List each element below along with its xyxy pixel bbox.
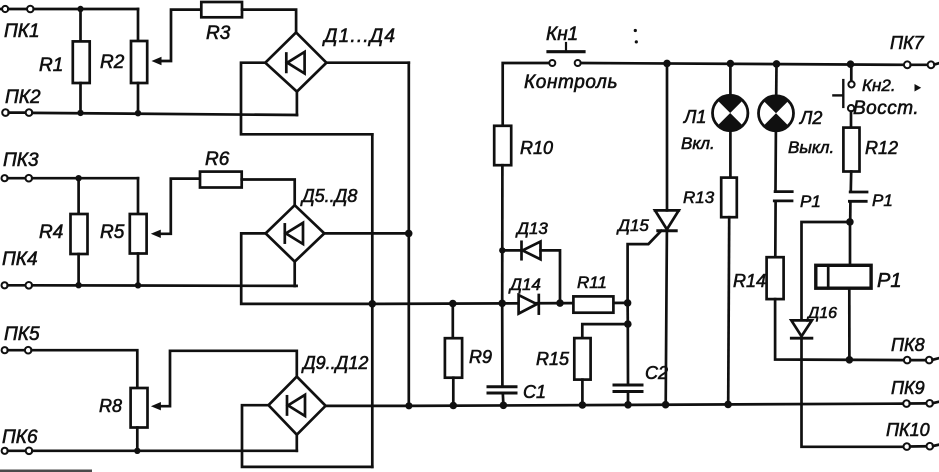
terminal PK5: [2, 347, 32, 354]
relay contact P1a: [774, 192, 792, 201]
arrow mark: [915, 84, 922, 92]
wire to D16: [802, 222, 851, 320]
resistor R5 (rheostat): [130, 214, 147, 254]
svg-text:R14: R14: [733, 271, 766, 291]
node junction R15 branch: [624, 320, 632, 328]
wire R12 bottom to contact P1b: [849, 172, 852, 191]
resistor R11: [573, 296, 613, 312]
svg-text:Д5..Д8: Д5..Д8: [300, 186, 357, 206]
node junction bridge2 right on bus: [405, 230, 413, 238]
svg-text:Д16: Д16: [806, 305, 837, 322]
wiper arrow R8: [151, 402, 161, 410]
resistor R12: [843, 128, 859, 172]
terminal PK6: [2, 448, 33, 455]
wire R8 bottom stub: [136, 428, 139, 451]
node junction D15 cathode on bus: [662, 401, 670, 409]
wire D13 to node: [541, 250, 561, 303]
resistor R4: [71, 214, 88, 254]
node junction C2 bottom: [624, 401, 632, 409]
wire R5 bottom stub: [137, 254, 140, 286]
node junction R1 bottom: [77, 110, 83, 116]
wire minus column vertical: [371, 134, 374, 467]
wire bridge2 left to node line: [241, 233, 372, 304]
svg-text:R12: R12: [865, 138, 898, 158]
node junction Kn2 branch: [847, 60, 855, 68]
colon mark: [634, 29, 638, 44]
wire C1 bottom stub: [501, 393, 504, 405]
terminal PK3: [2, 175, 33, 182]
svg-text:Р1: Р1: [872, 191, 893, 210]
wire top rail right: [581, 63, 904, 65]
wire R5 wiper to R6: [159, 179, 200, 234]
svg-text:R2: R2: [100, 52, 125, 73]
wiper arrow R5: [151, 230, 161, 238]
wire C1 vertical: [501, 303, 504, 386]
svg-text:Л2: Л2: [799, 108, 822, 128]
wire thyristor gate: [628, 231, 662, 303]
svg-text:Д14: Д14: [508, 275, 541, 294]
svg-text:ПК4: ПК4: [2, 249, 38, 270]
node junction R9 top: [449, 300, 457, 308]
resistor R15: [574, 338, 590, 380]
svg-text:C1: C1: [523, 382, 546, 402]
svg-text:R1: R1: [39, 55, 63, 76]
svg-text:ПК6: ПК6: [2, 427, 38, 448]
wire L1 to R13: [729, 131, 732, 178]
wire R14 bottom to PK8 rail: [775, 299, 904, 360]
svg-text:R8: R8: [99, 396, 122, 416]
resistor R8 (rheostat): [131, 388, 148, 428]
wire Kn2 stub: [850, 64, 853, 81]
wire L1 top stub: [729, 64, 732, 96]
node junction plus vertical on bottom bus: [405, 402, 412, 409]
wire PK2 rail to bridge1 bottom: [32, 113, 297, 115]
wire bridge3 bottom stub: [295, 435, 298, 451]
wire plus bus vertical: [407, 63, 410, 406]
wire to R15 top: [582, 324, 628, 338]
svg-text:ПК1: ПК1: [4, 21, 40, 42]
wire bridge1 left to minus column: [241, 63, 372, 135]
wire bridge1 right to plus bus: [326, 61, 408, 64]
node junction L2 branch: [773, 60, 781, 68]
svg-text:R13: R13: [683, 188, 715, 207]
node junction R8 bottom: [134, 448, 140, 454]
wire L2 top stub: [775, 64, 778, 96]
svg-text:R9: R9: [469, 347, 492, 367]
node junction R5 bottom: [135, 282, 141, 288]
wire R5 top stub: [137, 178, 140, 214]
wire R4 bottom stub: [77, 254, 80, 285]
node junction R9 bottom: [450, 402, 458, 410]
svg-text:Восст.: Восст.: [853, 98, 919, 119]
capacitor C1: [488, 387, 516, 393]
wire R15 C2 node vertical: [626, 303, 629, 324]
svg-text:Вкл.: Вкл.: [681, 134, 715, 153]
resistor R1: [73, 41, 90, 83]
wire top rail section3 to R8: [32, 350, 138, 388]
svg-text:ПК3: ПК3: [3, 150, 39, 171]
resistor R9: [445, 338, 462, 378]
wire R1 bottom stub: [79, 83, 82, 113]
svg-text:R4: R4: [39, 222, 63, 243]
svg-text:Кн1: Кн1: [546, 24, 578, 45]
svg-text:ПК5: ПК5: [4, 324, 40, 345]
diode D13: [522, 242, 541, 260]
node junction R2 bottom: [135, 110, 141, 116]
wire R2 wiper to R3: [160, 10, 201, 61]
svg-text:Д15: Д15: [616, 216, 649, 235]
wire R2 top stub: [137, 9, 140, 41]
relay contact P1b: [849, 192, 867, 201]
wire relay coil top stub: [849, 222, 852, 265]
node junction L1 branch: [727, 60, 735, 68]
wire D13 branch left: [502, 249, 520, 252]
wire node line: [372, 303, 627, 304]
diode D16: [791, 320, 812, 338]
wire bridge1 bottom stub: [296, 92, 299, 115]
wire R8 wiper to bridge3 top: [159, 351, 297, 406]
svg-text:R3: R3: [206, 23, 231, 44]
svg-text:R11: R11: [577, 273, 607, 292]
node junction D13 bottom: [556, 299, 564, 307]
svg-text:Выкл.: Выкл.: [788, 138, 834, 157]
terminal PK9: [903, 400, 938, 407]
wiper arrow R2: [152, 57, 162, 65]
wire D16 cathode to PK10 rail: [802, 338, 904, 447]
wire top rail section1: [34, 8, 138, 11]
svg-text:ПК8: ПК8: [891, 335, 925, 355]
terminal PK10: [904, 443, 939, 450]
terminal PK8: [904, 357, 938, 364]
wire contact P1b down: [849, 203, 852, 222]
lamp L1: [713, 95, 748, 130]
wire C2 vertical: [626, 324, 629, 385]
wire Kn2 to R12: [850, 112, 853, 128]
resistor R10: [494, 126, 511, 165]
wire PK4 rail to bridge2 bottom: [32, 284, 296, 287]
wire R15 bottom stub: [581, 380, 584, 406]
svg-text:Д13: Д13: [515, 219, 548, 238]
wire bridge3 right to bus: [326, 405, 409, 408]
node junction R10 C1 on node line: [498, 300, 506, 308]
node junction minus column and node line: [369, 300, 377, 308]
lamp L2: [759, 96, 794, 131]
svg-text:ПК9: ПК9: [891, 378, 925, 398]
node junction D16 branch: [846, 218, 854, 226]
wire R9 bottom stub: [452, 378, 455, 406]
svg-text:R15: R15: [536, 349, 570, 369]
wire D15 anode from rail: [666, 63, 669, 210]
resistor R3: [201, 2, 242, 17]
wire R6 to bridge2 top: [242, 180, 295, 206]
rectifier bridge D1..D4: [265, 32, 326, 91]
svg-text:Кн2.: Кн2.: [862, 76, 896, 95]
resistor R2 (rheostat): [131, 41, 147, 83]
capacitor C2: [614, 385, 642, 392]
wire bridge3 left to minus column bottom: [242, 405, 372, 467]
wire top rail section2: [32, 177, 138, 180]
wire bottom bus: [409, 404, 907, 406]
terminal PK1: [0, 6, 34, 13]
node junction D15 branch: [663, 60, 671, 68]
node junction C1 bottom: [500, 402, 508, 410]
wire R3 to bridge1 top: [242, 10, 296, 33]
svg-text:R5: R5: [100, 222, 125, 243]
svg-text:Л1: Л1: [683, 107, 706, 127]
wire bridge2 bottom stub: [293, 262, 296, 286]
node junction D13 tap: [499, 247, 505, 253]
wire R1 top stub: [79, 9, 82, 41]
svg-text:ПК7: ПК7: [890, 33, 925, 53]
rectifier bridge D9..D12: [269, 377, 326, 435]
svg-text:Контроль: Контроль: [524, 72, 618, 93]
thyristor D15: [655, 210, 679, 230]
terminal PK7: [904, 61, 939, 68]
wire R13 bottom to bus: [728, 217, 729, 404]
rectifier bridge D5..D8: [266, 205, 325, 261]
wire D15 cathode to bus: [666, 231, 667, 405]
wire L2 to contact P1a: [774, 131, 777, 191]
wire R10 bottom to node line: [501, 165, 504, 303]
wire relay coil bottom to PK8 rail: [848, 288, 851, 360]
resistor R13: [721, 178, 737, 218]
node junction R11 right gate node: [624, 299, 632, 307]
node junction R4 bottom: [75, 282, 81, 288]
svg-text:Д1...Д4: Д1...Д4: [322, 26, 396, 47]
svg-text:Д9..Д12: Д9..Д12: [301, 353, 368, 373]
wire C2 bottom stub: [627, 392, 630, 405]
scan smudge bottom edge: [0, 470, 92, 472]
wire PK6 rail to bridge3 bottom: [32, 449, 296, 452]
wire bridge2 right to plus bus: [324, 232, 409, 235]
node junction R15 bottom: [579, 401, 587, 409]
wire R2 bottom stub: [137, 83, 140, 113]
resistor R14: [767, 257, 784, 299]
wire R4 top stub: [77, 178, 80, 214]
node junction R13 bottom: [724, 401, 732, 409]
relay coil P1: [816, 265, 871, 288]
wire R9 top stub: [451, 304, 454, 339]
svg-text:R6: R6: [205, 149, 230, 170]
wire contact P1a to R14: [774, 202, 777, 257]
svg-text:Р1: Р1: [800, 192, 821, 211]
node junction R4 top: [75, 175, 81, 181]
svg-text:ПК2: ПК2: [5, 87, 41, 108]
node junction relay coil bottom on PK8 rail: [846, 356, 854, 364]
terminal PK4: [2, 282, 33, 289]
resistor R6: [200, 172, 242, 188]
svg-text:R10: R10: [520, 138, 553, 158]
button Kn2: [833, 80, 854, 111]
button Kn1: [548, 43, 584, 66]
diode D14: [519, 295, 539, 314]
terminal PK2: [2, 109, 32, 116]
svg-text:ПК10: ПК10: [886, 420, 930, 440]
node junction R1 top: [77, 6, 83, 12]
wire Kn1 rail left corner to R10: [503, 63, 550, 126]
svg-text:C2: C2: [645, 363, 668, 383]
svg-text:Р1: Р1: [877, 270, 901, 292]
